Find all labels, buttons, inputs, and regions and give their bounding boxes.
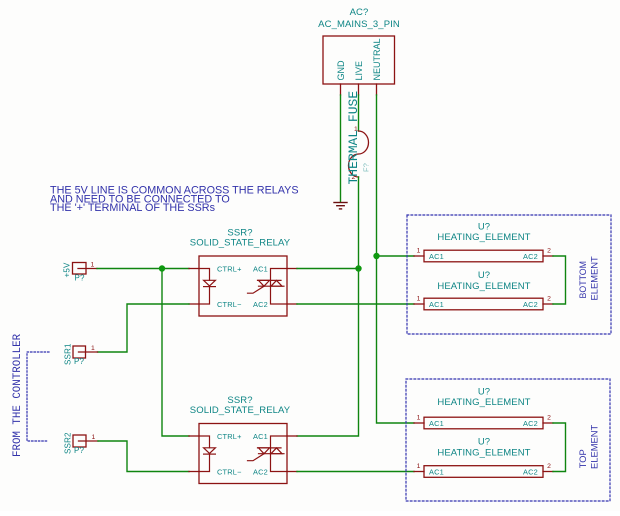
svg-text:THE '+' TERMINAL OF THE SSRs: THE '+' TERMINAL OF THE SSRs <box>50 202 216 214</box>
svg-text:2: 2 <box>547 248 551 255</box>
LED input side <box>199 269 215 305</box>
pin CTRL- <box>189 303 199 305</box>
svg-text:THERMAL FUSE: THERMAL FUSE <box>346 91 361 185</box>
connector P? SSR1 <box>64 343 98 366</box>
svg-text:CTRL+: CTRL+ <box>217 432 242 441</box>
wire NEUTRAL down to top element group <box>377 95 415 423</box>
svg-text:AC2: AC2 <box>523 300 538 309</box>
svg-text:AC?: AC? <box>350 7 369 18</box>
pin NEUTRAL of AC? <box>372 38 382 95</box>
svg-text:2: 2 <box>547 415 551 422</box>
controller bracket <box>27 352 49 441</box>
svg-text:AC_MAINS_3_PIN: AC_MAINS_3_PIN <box>318 19 400 30</box>
wire SSR2 AC2 to heating element 4 <box>297 471 414 473</box>
svg-text:AC1: AC1 <box>253 264 268 273</box>
svg-text:CTRL−: CTRL− <box>217 467 242 476</box>
junction NEUTRAL / element1 <box>373 253 379 259</box>
pin GND of AC? <box>336 60 346 95</box>
svg-text:ELEMENT: ELEMENT <box>588 256 599 301</box>
svg-text:HEATING_ELEMENT: HEATING_ELEMENT <box>437 232 530 243</box>
connector P? +5V <box>63 262 98 283</box>
svg-text:HEATING_ELEMENT: HEATING_ELEMENT <box>437 448 530 459</box>
svg-text:AC1: AC1 <box>253 432 268 441</box>
svg-text:1: 1 <box>91 345 95 352</box>
pin CTRL+ <box>189 268 199 270</box>
ground symbol <box>334 203 347 209</box>
solid state relay SSR? (lower) <box>189 395 297 484</box>
svg-text:1: 1 <box>417 248 421 255</box>
svg-text:AC2: AC2 <box>523 419 538 428</box>
svg-text:U?: U? <box>478 221 490 232</box>
svg-text:BOTTOM: BOTTOM <box>578 261 588 298</box>
svg-text:F?: F? <box>362 163 371 172</box>
svg-text:HEATING_ELEMENT: HEATING_ELEMENT <box>437 281 530 292</box>
svg-text:AC1: AC1 <box>429 252 444 261</box>
group box BOTTOM ELEMENT <box>407 215 611 334</box>
svg-text:P?: P? <box>74 446 85 455</box>
wire SSR1 CTRL- to connector SSR1 <box>98 304 190 352</box>
junction LIVE / SSR1 AC1 <box>355 265 361 271</box>
solid state relay SSR? (upper) <box>189 228 297 317</box>
pin CTRL+ <box>189 435 199 437</box>
svg-text:HEATING_ELEMENT: HEATING_ELEMENT <box>437 397 530 408</box>
wire connector SSR2 to SSR2 CTRL- <box>98 441 189 472</box>
pin LIVE of AC? <box>354 61 364 95</box>
svg-text:TOP: TOP <box>578 449 588 468</box>
wire GND vertical <box>340 95 342 202</box>
connector AC? AC_MAINS_3_PIN <box>318 7 400 84</box>
pin AC1 <box>287 435 297 437</box>
svg-text:SSR2: SSR2 <box>64 432 73 454</box>
svg-text:AC2: AC2 <box>253 300 268 309</box>
svg-text:P?: P? <box>74 357 85 366</box>
svg-text:SOLID_STATE_RELAY: SOLID_STATE_RELAY <box>190 238 291 249</box>
svg-text:AC2: AC2 <box>523 467 538 476</box>
svg-text:U?: U? <box>478 386 490 397</box>
wire SSR1 AC2 to heating element 2 <box>297 303 414 305</box>
heating element U? (1) <box>414 221 553 261</box>
svg-text:CTRL+: CTRL+ <box>217 264 242 273</box>
wire +5V to SSR1 CTRL+ <box>97 268 189 270</box>
wire LIVE lower to SSR2 AC1 <box>297 177 359 436</box>
note text <box>50 185 299 215</box>
connector P? SSR2 <box>64 432 99 455</box>
wire +5V branch down to SSR2 CTRL+ <box>162 269 189 437</box>
svg-text:1: 1 <box>417 415 421 422</box>
svg-text:LIVE: LIVE <box>354 61 364 81</box>
LED input side <box>199 436 215 472</box>
heating element U? (3) <box>414 386 553 429</box>
svg-text:U?: U? <box>478 270 490 281</box>
heating element U? (2) <box>414 270 553 310</box>
svg-text:FROM THE CONTROLLER: FROM THE CONTROLLER <box>12 333 24 457</box>
svg-text:1: 1 <box>417 463 421 470</box>
svg-text:AC2: AC2 <box>253 467 268 476</box>
svg-text:+5V: +5V <box>63 262 72 278</box>
pin CTRL- <box>189 471 199 473</box>
svg-text:GND: GND <box>336 60 346 81</box>
svg-text:1: 1 <box>92 434 96 441</box>
group box TOP ELEMENT <box>406 379 610 501</box>
wire joining AC2 pins of bottom group <box>553 256 566 304</box>
svg-text:2: 2 <box>547 296 551 303</box>
wire NEUTRAL branch to heating element 1 <box>377 255 415 257</box>
svg-text:SOLID_STATE_RELAY: SOLID_STATE_RELAY <box>190 405 291 416</box>
pin AC2 <box>287 303 297 305</box>
svg-text:P?: P? <box>75 274 86 283</box>
svg-text:NEUTRAL: NEUTRAL <box>372 38 382 80</box>
svg-text:2: 2 <box>547 463 551 470</box>
junction +5V branch <box>159 265 165 271</box>
svg-text:U?: U? <box>478 437 490 448</box>
triac output side <box>248 269 288 305</box>
pin AC1 <box>287 268 297 270</box>
wire LIVE upper <box>358 95 360 131</box>
svg-text:AC1: AC1 <box>429 300 444 309</box>
svg-text:SSR1: SSR1 <box>64 343 73 365</box>
svg-text:ELEMENT: ELEMENT <box>588 424 599 469</box>
svg-text:AC1: AC1 <box>429 419 444 428</box>
svg-text:1: 1 <box>91 262 95 269</box>
svg-text:AC1: AC1 <box>429 467 444 476</box>
svg-text:AC2: AC2 <box>523 252 538 261</box>
svg-text:CTRL−: CTRL− <box>217 300 242 309</box>
wire SSR1 AC1 to LIVE <box>297 268 359 270</box>
triac output side <box>248 436 288 472</box>
heating element U? (4) <box>414 437 553 478</box>
wire joining AC2 pins of top group <box>553 423 566 472</box>
svg-text:1: 1 <box>417 296 421 303</box>
pin AC2 <box>287 471 297 473</box>
fuse F? THERMAL FUSE <box>346 91 371 185</box>
